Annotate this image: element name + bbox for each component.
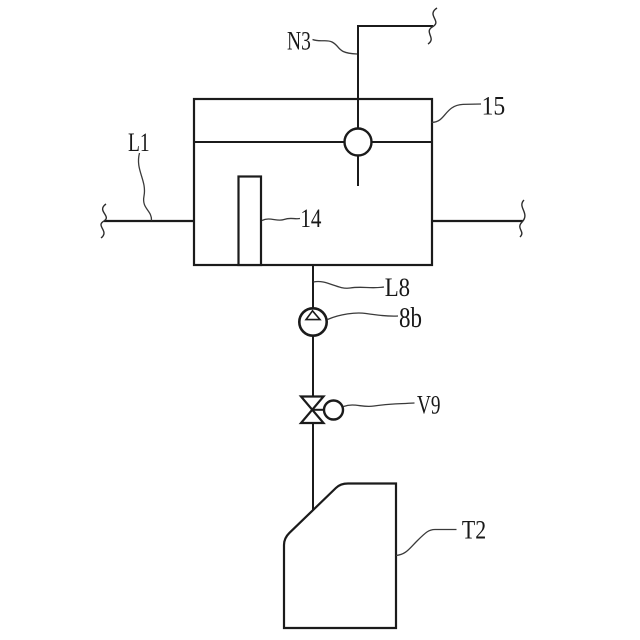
nozzle N3 top horizontal pipe xyxy=(357,25,433,27)
leader line N3 xyxy=(313,40,358,55)
tank T2 outline xyxy=(284,484,396,629)
svg-text:15: 15 xyxy=(482,93,506,121)
svg-text:L1: L1 xyxy=(128,128,150,156)
pipe L8 vessel to pump xyxy=(312,265,314,309)
pipe break symbol right xyxy=(520,200,525,237)
pipe break symbol left xyxy=(101,204,106,238)
stub line below float circle xyxy=(357,156,359,187)
pipe break symbol top right xyxy=(428,8,437,44)
svg-text:L8: L8 xyxy=(385,274,410,303)
leader line L8 xyxy=(314,281,385,288)
pump 8b circle xyxy=(299,308,326,335)
valve V9 actuator circle xyxy=(324,401,343,420)
nozzle N3 riser line xyxy=(357,26,359,129)
vessel 15 internal liquid level line xyxy=(194,141,432,143)
svg-text:8b: 8b xyxy=(399,302,422,334)
leader line 8b xyxy=(328,313,399,319)
leader line 14 xyxy=(262,218,300,220)
float valve circle on level line xyxy=(345,129,372,156)
vessel 15 body xyxy=(194,99,432,265)
pipe right outlet xyxy=(432,220,523,222)
leader line 15 xyxy=(432,104,482,122)
pump 8b triangle xyxy=(306,311,320,320)
svg-text:V9: V9 xyxy=(417,391,441,419)
pipe valve to tank xyxy=(312,423,314,512)
valve V9 bowtie xyxy=(301,397,324,424)
leader line T2 xyxy=(396,530,457,556)
pipe L1 left inlet xyxy=(104,220,194,222)
pipe pump to valve xyxy=(312,336,314,397)
svg-text:14: 14 xyxy=(300,205,321,234)
leader line L1 xyxy=(138,153,151,221)
valve V9 stem xyxy=(312,409,324,411)
weir 14 xyxy=(239,177,262,266)
svg-text:T2: T2 xyxy=(462,517,486,545)
leader line V9 xyxy=(344,403,415,407)
svg-text:N3: N3 xyxy=(287,27,311,55)
